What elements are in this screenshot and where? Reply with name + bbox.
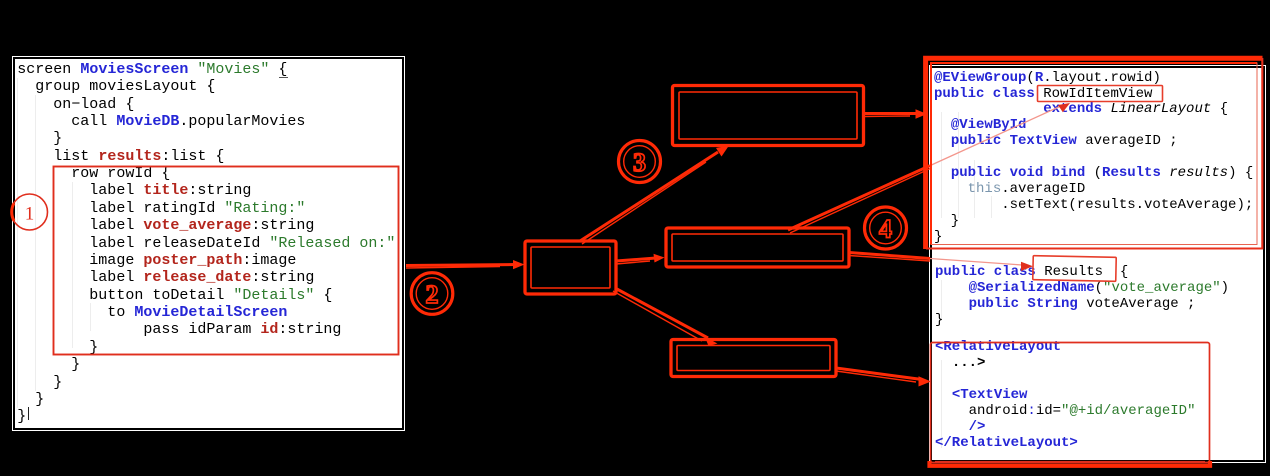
indent guide col2 [35, 95, 36, 391]
java panel indent guides [941, 112, 942, 218]
left DSL code panel [13, 57, 404, 430]
svg-text:2: 2 [426, 280, 439, 309]
svg-text:1: 1 [25, 204, 35, 225]
circle label 2 [411, 273, 453, 315]
matching brace underline on line 1 [279, 77, 288, 78]
text caret after final brace [28, 407, 29, 420]
arrow 3: transformer to view box [580, 152, 718, 244]
arrow: transformer to model box [616, 258, 656, 264]
transformer box (small) [525, 241, 616, 294]
xml panel red frame (outer) [930, 343, 1211, 466]
model class box (middle empty) [666, 228, 849, 267]
arrow: layout box to xml panel [836, 368, 922, 382]
indent guide col8 [90, 303, 91, 331]
XML layout code [935, 339, 1195, 451]
xml panel red frame (inner bottom hint) [935, 461, 1205, 463]
red box around RowIdItemView [1038, 86, 1163, 102]
circle 1 bright arc over black [12, 203, 14, 221]
svg-text:4: 4 [879, 215, 892, 244]
arrow: model box to Results box [849, 253, 930, 259]
java panel red frame (outer) [926, 58, 1263, 249]
indent guide col6 [72, 182, 73, 348]
right generated-code panel [930, 66, 1265, 462]
arrow 2: left panel to transformer box [406, 265, 516, 269]
circle label 1 [12, 194, 48, 230]
Java Results POJO code [935, 264, 1229, 328]
DSL source code [17, 61, 395, 426]
arrow: model box to RowIdItemView (crosses java panel) [788, 166, 930, 230]
Java RowIdItemView code [934, 71, 1253, 246]
annotation box around row block (left panel) [54, 167, 399, 355]
arrow: transformer to layout box [613, 288, 708, 341]
results panel indent guide [941, 280, 942, 320]
circle label 3 [619, 141, 661, 183]
layout box (bottom empty) [671, 340, 836, 377]
red box around Results [1033, 256, 1116, 282]
java panel red frame (inner) [931, 63, 1257, 245]
svg-text:3: 3 [633, 148, 646, 177]
xml panel indent guide [941, 360, 942, 448]
circle label 4 [865, 207, 907, 249]
indent guide col0 [17, 78, 18, 408]
view class box (top empty) [673, 86, 864, 146]
arrow: view box to java panel [864, 114, 918, 117]
